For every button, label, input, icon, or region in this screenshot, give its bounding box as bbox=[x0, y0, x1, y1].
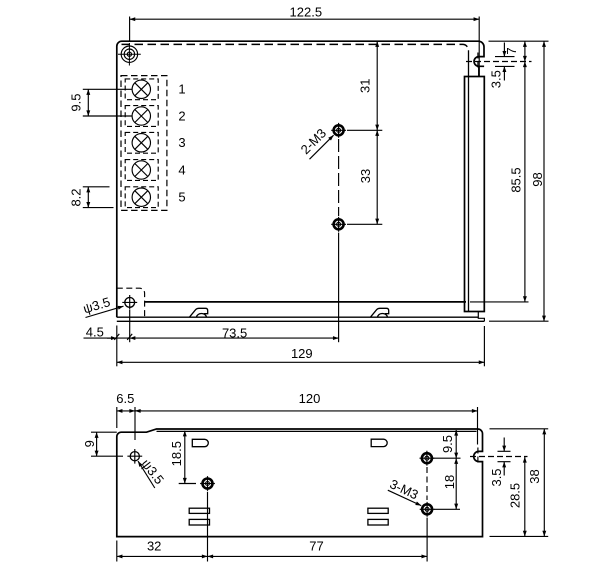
svg-text:28.5: 28.5 bbox=[508, 483, 523, 508]
dimension 6.5 bbox=[116, 391, 141, 440]
svg-text:31: 31 bbox=[358, 78, 373, 92]
dimension 3.5 top view bbox=[489, 43, 515, 89]
svg-text:5: 5 bbox=[178, 190, 185, 205]
svg-text:4: 4 bbox=[178, 162, 185, 177]
svg-text:8.2: 8.2 bbox=[68, 188, 83, 206]
bottom view top slot left bbox=[192, 439, 208, 446]
dimension 73.5 bbox=[130, 233, 339, 343]
M3 hole top bbox=[331, 123, 346, 138]
top view bottom lip bar bbox=[117, 317, 485, 321]
dimension 129 bbox=[117, 326, 485, 366]
centerline between right M3 holes bbox=[426, 467, 428, 500]
dimension 31 / 33 bbox=[347, 41, 382, 224]
dimension 28.5 bbox=[508, 457, 525, 536]
label 2-M3 with leader bbox=[298, 126, 334, 160]
dimension 38 bbox=[490, 429, 549, 537]
svg-text:85.5: 85.5 bbox=[509, 167, 524, 192]
svg-text:129: 129 bbox=[291, 346, 313, 361]
svg-text:73.5: 73.5 bbox=[222, 326, 247, 341]
terminal dashed cells bbox=[125, 79, 158, 208]
dimension 77 bbox=[208, 518, 428, 562]
centerline between M3 holes bbox=[338, 139, 340, 216]
bottom view top edge second line bbox=[157, 430, 477, 432]
dimension 4.5 bbox=[84, 310, 133, 366]
bottom view notch centerline bbox=[470, 448, 528, 466]
top view inner plate edge bbox=[468, 50, 470, 311]
svg-text:3.5: 3.5 bbox=[489, 70, 504, 88]
top view mounting ear hidden outline bbox=[117, 288, 145, 317]
dimension 9.5 bottom view bbox=[433, 430, 461, 458]
notch centerlines bbox=[466, 53, 532, 71]
svg-text:38: 38 bbox=[527, 469, 542, 483]
dimension 9.5 bbox=[68, 89, 132, 116]
dimension 9 bbox=[82, 432, 123, 456]
dimension 120 bbox=[135, 391, 478, 445]
svg-text:3.5: 3.5 bbox=[489, 468, 504, 486]
terminal numbers bbox=[178, 82, 185, 205]
top view body outline bbox=[117, 41, 484, 317]
top view cover dashed seam bbox=[122, 44, 469, 50]
top view corner screw bbox=[118, 43, 141, 66]
svg-text:3: 3 bbox=[178, 135, 185, 150]
svg-text:33: 33 bbox=[358, 169, 373, 183]
svg-text:120: 120 bbox=[299, 391, 321, 406]
bottom view right M3 hole upper bbox=[420, 451, 435, 466]
bottom view top slot right bbox=[371, 439, 387, 446]
top view bottom body edge bbox=[145, 301, 466, 303]
dimension 32 bbox=[117, 492, 208, 562]
top view louver left bbox=[189, 308, 207, 317]
svg-text:4.5: 4.5 bbox=[86, 324, 104, 339]
top view mounting hole 3.5 bbox=[125, 298, 135, 308]
svg-text:1: 1 bbox=[178, 82, 185, 97]
svg-text:9: 9 bbox=[82, 440, 97, 447]
bottom view slots lower left bbox=[189, 508, 209, 513]
label psi3.5 top view with leader bbox=[81, 294, 123, 317]
terminal block outer dashed box bbox=[121, 76, 167, 211]
dimension 8.2 bbox=[68, 187, 113, 208]
svg-text:98: 98 bbox=[530, 172, 545, 186]
bottom view slots lower right bbox=[368, 508, 388, 513]
label 3-M3 with leader bbox=[387, 476, 421, 505]
svg-text:18.5: 18.5 bbox=[169, 441, 184, 466]
svg-text:77: 77 bbox=[309, 539, 323, 554]
bottom view center M3 hole bbox=[200, 476, 215, 491]
top view right flange bbox=[465, 77, 485, 312]
dimension 122.5 bbox=[130, 5, 480, 77]
M3 hole bottom bbox=[331, 217, 346, 232]
dimension 7 bbox=[489, 41, 549, 61]
dimension 3.5 bottom view bbox=[489, 438, 510, 487]
top view louver right bbox=[370, 308, 388, 317]
svg-text:2: 2 bbox=[178, 108, 185, 123]
dimension 18 bbox=[434, 458, 460, 509]
dimension 85.5 bbox=[470, 62, 529, 302]
bottom view body outline bbox=[117, 429, 483, 537]
svg-text:9.5: 9.5 bbox=[68, 94, 83, 112]
svg-text:32: 32 bbox=[147, 539, 161, 554]
svg-text:7: 7 bbox=[504, 47, 519, 54]
terminal screws 1-5 bbox=[132, 80, 150, 206]
dimension 98 bbox=[489, 41, 549, 321]
bottom view right M3 hole lower bbox=[420, 502, 435, 517]
dimension 18.5 bbox=[169, 431, 196, 484]
svg-text:18: 18 bbox=[442, 475, 457, 489]
top view flange step to lip bbox=[478, 312, 484, 322]
svg-text:9.5: 9.5 bbox=[440, 435, 455, 453]
svg-text:122.5: 122.5 bbox=[290, 5, 323, 20]
svg-text:6.5: 6.5 bbox=[116, 391, 134, 406]
bottom view hole psi3.5 bbox=[130, 452, 139, 461]
label psi3.5 bottom view with leader bbox=[138, 456, 167, 488]
